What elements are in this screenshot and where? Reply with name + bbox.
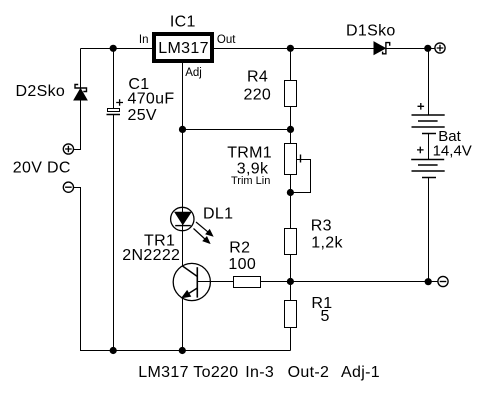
svg-text:2N2222: 2N2222 xyxy=(122,247,180,264)
svg-text:R2: R2 xyxy=(229,239,250,256)
svg-text:Out-2: Out-2 xyxy=(288,364,330,381)
svg-text:DL1: DL1 xyxy=(203,206,233,223)
svg-text:220: 220 xyxy=(244,87,272,104)
svg-text:Adj-1: Adj-1 xyxy=(341,364,380,381)
svg-text:470uF: 470uF xyxy=(128,91,175,108)
svg-text:14,4V: 14,4V xyxy=(433,142,472,159)
svg-text:LM317 To220: LM317 To220 xyxy=(138,364,238,381)
svg-text:Out: Out xyxy=(217,34,236,46)
svg-text:LM317: LM317 xyxy=(158,40,209,57)
svg-text:R4: R4 xyxy=(247,69,268,86)
svg-text:TRM1: TRM1 xyxy=(227,145,272,162)
svg-text:Adj: Adj xyxy=(185,67,202,79)
svg-text:Trim Lin: Trim Lin xyxy=(231,175,270,187)
svg-text:IC1: IC1 xyxy=(170,14,196,31)
svg-text:In: In xyxy=(139,34,149,46)
svg-text:20V DC: 20V DC xyxy=(13,159,71,176)
svg-text:100: 100 xyxy=(228,256,256,273)
svg-text:R3: R3 xyxy=(311,218,332,235)
svg-text:D1Sko: D1Sko xyxy=(346,23,396,40)
svg-text:25V: 25V xyxy=(128,107,157,124)
svg-text:D2Sko: D2Sko xyxy=(16,83,66,100)
svg-text:In-3: In-3 xyxy=(245,364,274,381)
svg-text:5: 5 xyxy=(321,308,330,325)
svg-text:1,2k: 1,2k xyxy=(311,234,343,251)
